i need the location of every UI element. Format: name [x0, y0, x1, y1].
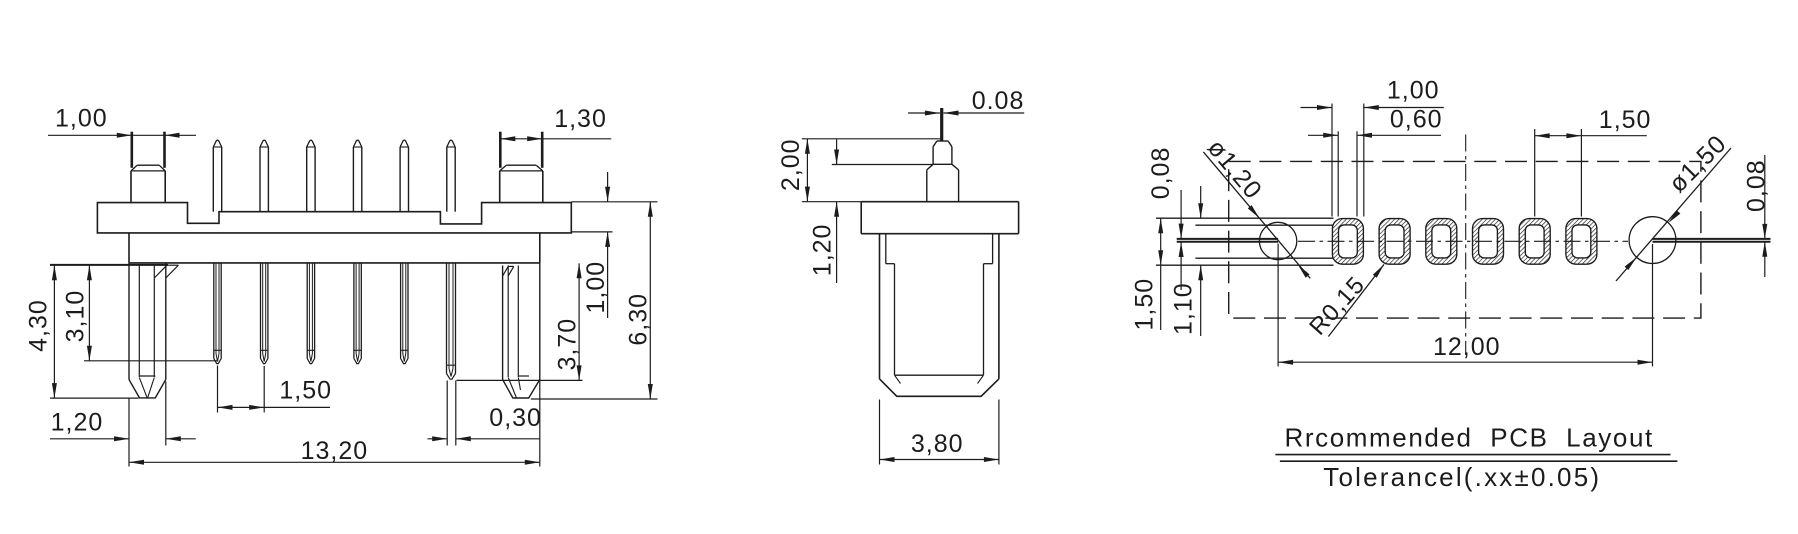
dim 1,20 side view: [832, 164, 933, 166]
front view: top pin 5: [399, 147, 401, 212]
svg-text:R0,15: R0,15: [1304, 271, 1370, 340]
pcb layout: vertical centerline: [1465, 135, 1467, 355]
svg-text:2,00: 2,00: [777, 138, 805, 191]
svg-text:4,30: 4,30: [25, 299, 53, 352]
front view: top pin 3: [306, 147, 308, 212]
dim 3,10 left: [84, 360, 218, 362]
leader R0,15: [1328, 264, 1384, 336]
svg-text:13,20: 13,20: [301, 437, 369, 465]
dim 1,00 right (housing thickness): [571, 231, 612, 233]
dim 0.08 top: [908, 112, 940, 114]
pcb layout: plated slot 1: [1332, 219, 1363, 265]
svg-text:Rrcommended PCB Layout: Rrcommended PCB Layout: [1285, 423, 1654, 453]
svg-text:12,00: 12,00: [1433, 333, 1501, 361]
dim 1,50 pcb top right: [1534, 129, 1536, 217]
pcb layout: slot channel outer lines: [1156, 217, 1334, 219]
pcb layout: plated slot 3: [1426, 219, 1457, 265]
front view: bottom pin 1: [213, 263, 215, 359]
dim 6,30 right: [571, 201, 657, 203]
svg-text:1,50: 1,50: [1599, 106, 1652, 134]
svg-text:3,10: 3,10: [61, 290, 89, 343]
svg-text:1,10: 1,10: [1170, 282, 1198, 335]
svg-text:Tolerancel(.xx±0.05): Tolerancel(.xx±0.05): [1323, 462, 1601, 492]
svg-text:1,50: 1,50: [279, 377, 332, 405]
pcb layout: slot channel inner lines: [1195, 224, 1340, 226]
pcb layout: dashed board outline: [1229, 161, 1701, 318]
svg-text:0,30: 0,30: [489, 404, 542, 432]
dim 1,20 bottom left: [128, 399, 130, 467]
dim 12,00 pcb bottom: [1277, 244, 1279, 367]
svg-text:1,50: 1,50: [1131, 278, 1159, 331]
front view: bottom right post: [502, 266, 504, 380]
dim 0,08 pcb left (points at trace pair): [1180, 190, 1182, 239]
pcb layout: plated slot 5: [1519, 219, 1550, 265]
front view: top pin 6: [446, 147, 448, 212]
svg-text:0.08: 0.08: [972, 87, 1025, 115]
front view: top pin 1: [212, 147, 214, 212]
front view: bottom left post: [128, 263, 130, 380]
dim 1,30 top right: [500, 138, 611, 140]
dim 0,30 bottom right: [446, 381, 448, 446]
pcb layout: slot1 extension lines up: [1331, 104, 1333, 217]
svg-text:1,20: 1,20: [51, 409, 104, 437]
svg-text:ø1,50: ø1,50: [1664, 130, 1733, 199]
side view: body: [879, 234, 881, 379]
dim 4,30 left: [50, 264, 168, 266]
svg-text:1,30: 1,30: [554, 105, 607, 133]
front view: bottom pin 3: [306, 263, 308, 359]
svg-text:1,00: 1,00: [55, 105, 108, 133]
side view: contact pin wire: [940, 108, 943, 141]
pcb layout: trace (0.08) right: [1653, 238, 1771, 240]
svg-text:3,70: 3,70: [554, 318, 582, 371]
dim 1,10 pcb left: [1200, 186, 1202, 218]
leader dia 1,20: [1203, 152, 1310, 278]
leader dia 1,50: [1616, 148, 1731, 281]
pcb layout: hole circle left (dia 1.20): [1259, 222, 1296, 259]
dim 3,70 right: [457, 379, 583, 381]
svg-text:0,60: 0,60: [1390, 105, 1443, 133]
front view: bottom pin 2: [260, 263, 262, 359]
pcb layout: plated slot 2: [1379, 219, 1410, 265]
pcb layout: plated slot 4: [1473, 219, 1504, 265]
dim 1,50 bottom (pin pitch): [217, 366, 219, 413]
title underline double rule: [1275, 454, 1670, 456]
front view: top pin 2: [259, 147, 261, 212]
front view: top right post: [499, 132, 502, 168]
dim 0,60 pcb top: [1308, 134, 1338, 136]
dim 1,00 top left: [48, 134, 196, 136]
pcb layout: trace (0.08) left: [1177, 238, 1278, 240]
front view: bottom pin 4: [353, 263, 355, 359]
front view: top pin 4: [352, 147, 354, 212]
front view: housing lower bar: [128, 233, 130, 263]
side view: flange: [861, 201, 1018, 203]
pcb layout: hole circle right (dia 1.50): [1629, 217, 1676, 264]
svg-text:1,00: 1,00: [582, 261, 610, 314]
side view: contact head: [937, 140, 948, 142]
svg-text:1,00: 1,00: [1387, 77, 1440, 105]
svg-text:ø1,20: ø1,20: [1202, 134, 1268, 205]
dim 3,80 side view: [879, 400, 881, 465]
svg-text:0,08: 0,08: [1742, 159, 1770, 212]
svg-text:3,80: 3,80: [911, 430, 964, 458]
front view: housing body outline: [97, 203, 571, 233]
pcb layout: plated slot 6: [1566, 219, 1597, 265]
front view: bottom pin 5: [400, 263, 402, 359]
dim 1,50 pcb left: [1160, 218, 1162, 265]
pcb layout: horizontal centerline: [1298, 240, 1628, 242]
svg-text:6,30: 6,30: [625, 293, 653, 346]
dim 13,20 bottom: [539, 380, 541, 467]
dim 0,08 pcb right: [1764, 155, 1766, 239]
svg-text:1,20: 1,20: [809, 224, 837, 277]
dim 1,00 pcb top: [1301, 107, 1333, 109]
dim 2,00 side view: [802, 138, 941, 140]
front view: bottom pin 6 (0.30 wide): [446, 263, 448, 374]
svg-text:0,08: 0,08: [1147, 147, 1175, 200]
front view: top left post: [131, 132, 134, 168]
